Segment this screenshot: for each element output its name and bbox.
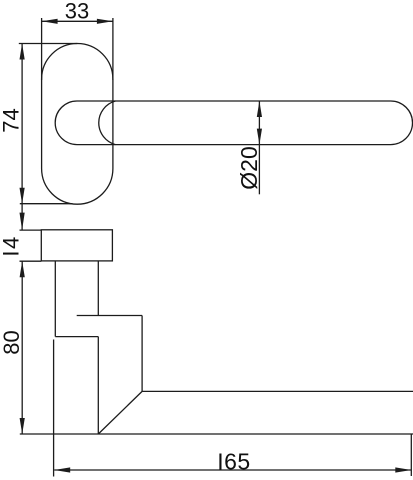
165 right extension line <box>410 434 412 476</box>
165 left extension line <box>53 340 55 477</box>
arrowhead 14 top (points down) <box>20 213 25 231</box>
dimension line 80 <box>21 261 23 434</box>
rosette oval (plan view stadium) <box>42 43 113 204</box>
mitre diagonal <box>98 391 142 434</box>
arrowhead 33 right <box>97 19 113 24</box>
extension line right of 33 dim <box>112 18 114 80</box>
diameter leader line Ø20 <box>258 101 260 194</box>
shoulder line H1 <box>77 315 142 317</box>
svg-text:I65: I65 <box>217 449 250 475</box>
svg-text:Ø20: Ø20 <box>236 146 262 189</box>
arrowhead 80 bottom (points down) <box>20 418 25 434</box>
dimension line 165 <box>54 469 411 471</box>
neck left edge <box>54 261 56 337</box>
svg-text:80: 80 <box>0 330 24 354</box>
arrowhead 33 left <box>42 19 58 24</box>
arrowhead 74 down <box>20 188 25 204</box>
svg-text:33: 33 <box>65 0 89 24</box>
lower neck vertical V4 <box>97 337 99 434</box>
extension line top of 74 dim <box>19 43 78 45</box>
extension line bottom of 14 dim <box>20 260 42 262</box>
grip end cap arc (plan view) <box>99 101 116 145</box>
rosette plate (side view) <box>41 230 112 261</box>
grip bottom edge + 80 extension <box>20 433 413 435</box>
arrowhead 165 left <box>54 467 70 472</box>
step line H2 <box>55 336 98 338</box>
neck right edge <box>97 261 99 316</box>
extension line top of 14 dim <box>20 229 42 231</box>
arrowhead Ø20 up <box>257 101 262 117</box>
arrowhead 74 up <box>20 44 25 60</box>
dimension line 74 with leader to 14 <box>21 44 23 231</box>
extension line bottom of 74 dim <box>20 203 73 205</box>
svg-text:I4: I4 <box>0 235 23 256</box>
extension line left of 33 dim <box>41 18 43 80</box>
lever handle outline (plan view) <box>55 101 412 145</box>
grip top edge (side view) <box>142 390 413 392</box>
dimension line 33 <box>42 20 113 22</box>
svg-text:74: 74 <box>0 108 24 132</box>
arrowhead Ø20 down <box>257 129 262 145</box>
arrowhead 165 right <box>395 467 411 472</box>
elbow vertical V3 <box>141 316 143 392</box>
arrowhead 14 bottom / 80 top (points up) <box>20 261 25 277</box>
